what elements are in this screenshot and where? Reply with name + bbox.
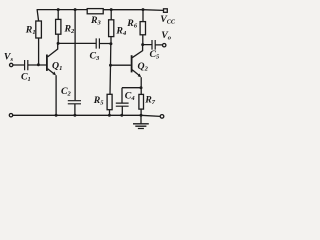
svg-text:C2: C2 (61, 86, 72, 98)
svg-text:Q2: Q2 (138, 61, 149, 73)
svg-text:R7: R7 (144, 94, 156, 106)
svg-text:C3: C3 (90, 51, 101, 63)
svg-text:Vo: Vo (161, 30, 172, 42)
svg-text:C4: C4 (125, 91, 136, 103)
svg-text:R5: R5 (93, 95, 105, 107)
svg-text:R1: R1 (25, 24, 36, 36)
svg-text:Vs: Vs (4, 52, 14, 64)
svg-text:C5: C5 (150, 49, 161, 61)
svg-text:C1: C1 (21, 71, 31, 83)
svg-text:R2: R2 (64, 23, 76, 35)
svg-text:VCC: VCC (160, 14, 176, 26)
svg-text:Q1: Q1 (52, 61, 62, 73)
svg-text:R3: R3 (90, 15, 102, 27)
svg-text:R4: R4 (115, 26, 127, 38)
svg-text:R6: R6 (126, 18, 138, 30)
